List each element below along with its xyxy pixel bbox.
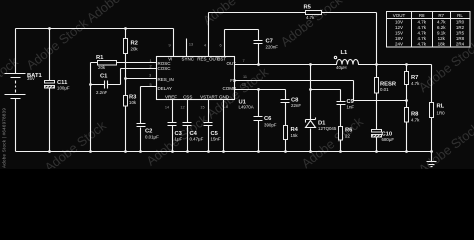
svg-text:RES_OUT: RES_OUT [197,56,219,61]
svg-text:13: 13 [189,43,193,47]
svg-text:RL: RL [457,13,463,18]
svg-text:Adobe Stock | #646978839: Adobe Stock | #646978839 [2,108,7,168]
svg-text:RES_IN: RES_IN [158,77,174,82]
svg-text:C1: C1 [100,74,108,80]
svg-text:4.7k: 4.7k [411,81,420,86]
svg-text:14: 14 [165,106,169,110]
svg-text:FB: FB [230,78,236,83]
svg-text:15k: 15k [291,133,299,138]
svg-text:4.7k: 4.7k [417,19,426,24]
svg-text:4.7k: 4.7k [417,25,426,30]
svg-text:7: 7 [242,59,244,63]
svg-text:3: 3 [149,74,151,78]
svg-text:40μH: 40μH [336,65,347,70]
svg-text:390pF: 390pF [264,123,277,128]
svg-text:8: 8 [226,105,228,109]
svg-text:2R4: 2R4 [456,42,465,47]
svg-text:R7: R7 [438,13,444,18]
svg-text:VSTART: VSTART [200,95,218,100]
svg-text:1: 1 [149,59,151,63]
svg-text:11: 11 [243,75,247,79]
svg-text:4.7k: 4.7k [417,42,426,47]
svg-text:OUT: OUT [227,61,237,66]
svg-text:4: 4 [204,44,206,48]
svg-text:1nF: 1nF [347,105,355,110]
svg-text:SYNC: SYNC [181,56,194,61]
svg-text:R5: R5 [304,5,312,11]
svg-text:4.7k: 4.7k [417,36,426,41]
svg-text:VREF: VREF [165,95,177,100]
svg-text:15V: 15V [395,31,403,36]
svg-text:9.1k: 9.1k [437,31,446,36]
svg-text:1R0: 1R0 [456,19,465,24]
svg-text:100μF: 100μF [57,86,70,91]
svg-text:R8: R8 [419,13,425,18]
svg-text:12V: 12V [395,25,403,30]
svg-text:1R5: 1R5 [456,31,465,36]
svg-text:1R8: 1R8 [456,36,465,41]
svg-text:COMP: COMP [223,86,237,91]
svg-text:12TQ045: 12TQ045 [318,126,337,131]
svg-text:20k: 20k [98,65,106,70]
svg-text:15nF: 15nF [211,137,221,142]
svg-text:12k: 12k [438,36,446,41]
svg-text:680μF: 680μF [382,137,395,142]
svg-text:4.7k: 4.7k [437,19,446,24]
svg-text:24V: 24V [395,42,403,47]
svg-text:1μF: 1μF [175,137,183,142]
svg-text:0.01μF: 0.01μF [145,135,159,140]
svg-text:1R0: 1R0 [437,111,446,116]
svg-text:18V: 18V [395,36,403,41]
svg-text:10V: 10V [395,19,403,24]
svg-text:0.01: 0.01 [380,87,389,92]
svg-text:BST: BST [217,56,226,61]
svg-text:4.7k: 4.7k [411,118,420,123]
svg-text:4.7k: 4.7k [306,15,315,20]
svg-text:20k: 20k [131,47,139,52]
svg-text:C6: C6 [264,116,272,122]
svg-text:12: 12 [180,106,184,110]
svg-text:6.2k: 6.2k [437,25,446,30]
svg-text:220nF: 220nF [266,45,279,50]
svg-text:0.47μF: 0.47μF [190,137,204,142]
svg-text:22nF: 22nF [291,103,301,108]
svg-text:VOUT: VOUT [393,13,406,18]
svg-text:L1: L1 [341,50,349,56]
svg-text:18k: 18k [438,42,446,47]
svg-text:4.7k: 4.7k [417,31,426,36]
svg-text:GND: GND [219,95,230,100]
svg-text:2: 2 [149,64,151,68]
svg-text:5: 5 [149,83,151,87]
svg-text:10: 10 [242,83,246,87]
svg-text:9: 9 [168,44,170,48]
svg-text:15: 15 [200,106,204,110]
svg-text:CSS: CSS [183,95,192,100]
svg-text:R1: R1 [96,55,104,61]
svg-text:DELAY: DELAY [158,86,172,91]
svg-text:RL: RL [437,104,445,110]
svg-text:35V: 35V [27,76,35,81]
svg-text:22: 22 [345,134,350,139]
svg-text:10k: 10k [129,100,137,105]
svg-text:2.2nF: 2.2nF [96,90,108,95]
svg-text:COSC: COSC [158,66,172,71]
svg-text:1R2: 1R2 [456,25,465,30]
svg-text:6: 6 [219,44,221,48]
svg-text:L4970A: L4970A [239,105,254,110]
